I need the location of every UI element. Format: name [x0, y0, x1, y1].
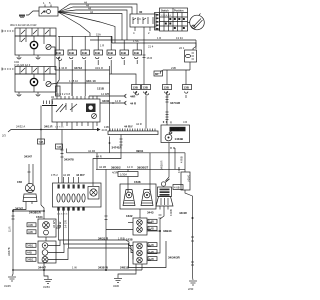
svg-text:14B: 14B	[149, 243, 154, 247]
ground G3 path	[118, 270, 136, 278]
harness wire with ticks to flasher	[166, 95, 169, 125]
ground G1	[8, 277, 16, 281]
side marker lamp 158	[17, 180, 37, 208]
flasher relay K2	[52, 96, 100, 126]
rear feed wire 1	[59, 211, 134, 246]
svg-text:4/3R: 4/3R	[112, 171, 118, 175]
svg-text:15A: 15A	[96, 32, 101, 36]
svg-text:4 6B: 4 6B	[174, 186, 180, 190]
svg-text:14 R: 14 R	[115, 99, 121, 103]
svg-text:39/31: 39/31	[136, 149, 144, 153]
hazard switch S2	[130, 10, 156, 27]
bus 39/30/27	[96, 165, 185, 174]
svg-text:R: R	[170, 121, 172, 125]
jog 74B drop into node	[41, 205, 44, 211]
svg-text:44R: 44R	[130, 95, 136, 99]
label box 1/30A	[118, 169, 138, 192]
ignition switch key symbol	[188, 14, 205, 30]
svg-text:131B: 131B	[97, 87, 104, 91]
comb drop from bus1	[109, 83, 111, 131]
wire 8P stub curl	[160, 70, 163, 74]
svg-text:24/38/1R: 24/38/1R	[29, 211, 42, 215]
svg-text:1 R: 1 R	[100, 44, 104, 48]
svg-text:34: 34	[51, 95, 54, 99]
svg-text:16 R: 16 R	[147, 56, 153, 60]
svg-text:4.6: 4.6	[137, 17, 141, 21]
left lamp unit A bottom pins	[17, 55, 40, 59]
drop to bracket B3	[166, 70, 168, 85]
svg-text:11B: 11B	[95, 51, 100, 55]
svg-text:175 2: 175 2	[51, 173, 58, 177]
bottom ground bus	[12, 266, 142, 272]
svg-text:1/30A: 1/30A	[120, 173, 127, 177]
svg-text:Switch: Switch	[161, 10, 169, 13]
flasher unit 34730	[161, 120, 190, 152]
svg-text:44 2B: 44 2B	[63, 173, 70, 177]
svg-text:4 RB: 4 RB	[177, 167, 181, 173]
stub between 1534 boxes	[45, 237, 47, 241]
svg-text:34/34: 34/34	[187, 175, 191, 182]
horn unit box 1538	[120, 180, 156, 209]
svg-text:13B: 13B	[184, 86, 189, 90]
svg-text:34713: 34713	[74, 66, 82, 70]
horn H2 feed	[149, 169, 151, 192]
svg-text:13B: 13B	[104, 125, 109, 129]
right vertical tag wire	[180, 153, 193, 196]
svg-text:34B2: 34B2	[27, 258, 34, 262]
svg-text:11 R: 11 R	[8, 226, 12, 232]
wire fan line 5	[58, 12, 115, 43]
wire into 1534	[43, 211, 45, 219]
svg-text:1534: 1534	[36, 215, 43, 219]
bracket B4	[183, 85, 192, 99]
connector arcs row 1	[57, 57, 138, 60]
continuation dashes B	[2, 68, 15, 71]
svg-text:1434B: 1434B	[175, 137, 184, 141]
comb wire to C5 lamp	[93, 135, 123, 187]
svg-text:44: 44	[88, 7, 91, 11]
svg-text:24B1B: 24B1B	[120, 266, 129, 270]
svg-text:34730: 34730	[171, 128, 180, 132]
svg-text:39/30/27: 39/30/27	[137, 165, 149, 169]
left lamp unit A terminal row	[15, 28, 56, 36]
left lamp unit B body	[15, 74, 56, 92]
svg-text:44B: 44B	[27, 251, 32, 255]
feed bus line A	[58, 35, 112, 37]
svg-text:14B: 14B	[149, 220, 154, 224]
front lamp unit 1534	[27, 215, 61, 237]
wire to bracket B1	[110, 74, 137, 85]
wires 1638 to ground bus	[136, 264, 142, 270]
feed bus line A2	[90, 39, 196, 41]
svg-text:34741R: 34741R	[170, 101, 181, 105]
svg-text:34/30: 34/30	[102, 99, 110, 103]
wire hazard drop 16R	[143, 27, 145, 85]
svg-text:4 R: 4 R	[183, 120, 187, 124]
svg-text:31/53: 31/53	[43, 285, 50, 289]
relay bottom pin drops	[57, 126, 93, 130]
connector block C5	[51, 173, 101, 207]
svg-text:44 R: 44 R	[130, 102, 137, 106]
svg-text:44/4R: 44/4R	[179, 211, 188, 215]
svg-text:158: 158	[17, 180, 22, 184]
ground G3	[114, 279, 122, 283]
svg-text:1 78 10: 1 78 10	[69, 79, 78, 83]
ground G4	[189, 281, 197, 285]
svg-text:34B43: 34B43	[163, 229, 172, 233]
svg-text:44 2B: 44 2B	[99, 165, 106, 169]
svg-text:11B: 11B	[69, 51, 74, 55]
svg-text:21B: 21B	[171, 66, 176, 70]
rear feed wire 2	[64, 211, 134, 253]
ground G2	[44, 280, 52, 284]
svg-text:2/3: 2/3	[2, 134, 6, 138]
svg-text:2/30: 2/30	[188, 287, 194, 291]
bus link drop	[149, 153, 151, 170]
svg-text:13B: 13B	[143, 86, 148, 90]
svg-text:34B: 34B	[28, 223, 33, 227]
drop wire 74B	[24, 106, 45, 206]
relay drops from bus2	[57, 83, 72, 96]
svg-text:34/47B: 34/47B	[7, 247, 11, 256]
left lamp unit A body	[15, 36, 56, 55]
left lamp unit B terminal row	[15, 67, 56, 75]
wire fan line 6	[58, 12, 90, 36]
wire node 24/38/1R	[12, 207, 44, 215]
svg-text:30: 30	[139, 10, 143, 14]
svg-text:31/45: 31/45	[4, 284, 11, 288]
svg-text:8P: 8P	[155, 72, 159, 76]
svg-text:30A 3 4A GR 4A 3 GR: 30A 3 4A GR 4A 3 GR	[10, 23, 37, 27]
svg-text:44: 44	[90, 10, 93, 14]
svg-text:13 34: 13 34	[176, 36, 183, 40]
hazard switch pin stubs	[135, 27, 150, 31]
turn signal stalk switch	[156, 179, 183, 210]
feed bus line B	[112, 43, 196, 49]
wire flasher pin2 to bus	[174, 148, 176, 169]
svg-text:13B: 13B	[133, 86, 138, 90]
ignition switch position table	[160, 8, 188, 31]
svg-text:14 GR: 14 GR	[64, 220, 68, 228]
svg-text:22 1: 22 1	[179, 46, 185, 50]
wire flasher to stalk switch	[166, 152, 170, 181]
wire fan line 4	[58, 12, 122, 40]
bus 34/110	[52, 66, 110, 84]
svg-text:34447: 34447	[38, 266, 46, 270]
rear lamp unit 1638	[126, 238, 166, 268]
svg-text:34/1 R: 34/1 R	[44, 125, 53, 129]
horn H1	[123, 190, 135, 206]
wire feed to lamp 158	[28, 164, 30, 184]
front lamp unit 1534B	[26, 241, 56, 263]
wire fan line 2	[58, 7, 132, 14]
rear lamp unit 1632	[106, 209, 157, 235]
bracket B3	[163, 85, 172, 95]
junction box comb strip	[104, 125, 158, 135]
bus link	[111, 36, 113, 43]
svg-text:3443: 3443	[147, 211, 154, 215]
wire 8P jog from fuse	[163, 69, 190, 71]
svg-text:14 R/B: 14 R/B	[101, 92, 109, 96]
svg-text:14B: 14B	[149, 250, 154, 254]
svg-text:44 R: 44 R	[136, 122, 142, 126]
node R dots	[163, 121, 164, 122]
svg-text:11B: 11B	[121, 51, 126, 55]
svg-text:44B: 44B	[28, 230, 33, 234]
bus 34713	[52, 47, 110, 70]
svg-text:1632: 1632	[126, 214, 133, 218]
svg-text:1638: 1638	[126, 238, 133, 242]
pin blobs below C5	[57, 207, 85, 216]
svg-text:11B: 11B	[108, 51, 113, 55]
continuation dashes A	[2, 30, 15, 33]
relay output wire 44R lower	[100, 99, 137, 106]
connector row 1 top drops	[59, 36, 137, 50]
svg-text:13B: 13B	[164, 86, 169, 90]
svg-text:14 O: 14 O	[127, 165, 133, 169]
svg-text:3430: 3430	[113, 284, 119, 288]
svg-text:1 34 R: 1 34 R	[59, 66, 67, 70]
left lamp unit B bottom pins	[17, 92, 40, 96]
svg-text:11B: 11B	[134, 51, 139, 55]
svg-text:74B: 74B	[39, 140, 44, 144]
svg-text:44 4R: 44 4R	[88, 149, 95, 153]
svg-text:11B: 11B	[82, 51, 87, 55]
relay output wire 44R upper	[89, 92, 136, 99]
svg-text:44 R/Y: 44 R/Y	[76, 173, 85, 177]
svg-text:44 R/Y: 44 R/Y	[124, 125, 133, 129]
svg-text:34347: 34347	[24, 155, 32, 159]
wire fan line 1	[58, 4, 137, 14]
svg-text:21 4: 21 4	[148, 45, 154, 49]
svg-text:4 R/B: 4 R/B	[180, 156, 184, 163]
wire switch to rear lamps	[147, 210, 164, 254]
fuse F1	[179, 43, 197, 70]
svg-text:24/32 A: 24/32 A	[16, 125, 25, 129]
mid vertical to ground bus	[105, 169, 107, 270]
svg-text:14 W: 14 W	[58, 221, 62, 228]
bracket B1	[132, 85, 141, 95]
right ground trunk wire	[192, 196, 195, 280]
wire fan line 3	[58, 10, 127, 40]
ignition connector strip C1	[155, 13, 160, 31]
svg-text:39/30/2: 39/30/2	[111, 165, 121, 169]
svg-text:1538: 1538	[134, 180, 141, 184]
svg-text:1 W: 1 W	[72, 266, 77, 270]
svg-text:14B: 14B	[149, 257, 154, 261]
vertical tag above relay	[56, 86, 61, 96]
ground G2 path	[44, 270, 48, 279]
left ground trunk	[12, 208, 27, 277]
svg-text:34/31 R: 34/31 R	[98, 237, 109, 241]
svg-text:34 R/Y: 34 R/Y	[52, 220, 56, 228]
wire 24/32 bus	[2, 125, 107, 138]
svg-text:11B: 11B	[56, 51, 61, 55]
wire 1534B to ground bus	[43, 263, 45, 270]
bus 39/31	[67, 149, 186, 153]
svg-text:3438 W: 3438 W	[98, 266, 108, 270]
connector row 1 bottom stubs	[57, 60, 137, 96]
svg-text:34747: 34747	[15, 207, 23, 211]
svg-text:34/1 10: 34/1 10	[86, 79, 96, 83]
svg-text:73B: 73B	[57, 145, 62, 149]
svg-text:4 R/B: 4 R/B	[169, 209, 173, 216]
drop wire 73B	[56, 130, 75, 184]
svg-text:1 5A: 1 5A	[133, 39, 139, 43]
svg-text:34/30 R: 34/30 R	[160, 161, 164, 170]
horn H2	[141, 190, 153, 206]
stubs from 1534B up to feeds	[48, 240, 68, 260]
drop to bracket B4	[185, 70, 187, 85]
stub wires into C5 top	[59, 177, 79, 183]
svg-text:34B1: 34B1	[27, 244, 34, 248]
svg-text:14B: 14B	[149, 227, 154, 231]
inline connector row 1	[55, 50, 142, 55]
rear feed wire 3	[69, 211, 134, 260]
svg-text:1 R: 1 R	[157, 36, 161, 40]
svg-text:1 2 3 4 5 6: 1 2 3 4 5 6	[161, 15, 172, 17]
relay left pin bar	[42, 101, 57, 106]
svg-text:Position: Position	[174, 10, 184, 13]
svg-text:34741R: 34741R	[112, 146, 123, 150]
wire K1 to GR node	[26, 11, 39, 15]
svg-text:1 2 7 3 5: 1 2 7 3 5	[55, 127, 64, 129]
link bus1 to bus2	[96, 153, 98, 170]
svg-text:343478: 343478	[64, 158, 74, 162]
bracket B2	[136, 85, 151, 129]
relay K1 (top-left control unit)	[39, 1, 58, 16]
svg-text:1 R/B: 1 R/B	[118, 237, 125, 241]
svg-text:34/1 R: 34/1 R	[95, 66, 103, 70]
svg-text:34/34/3R: 34/34/3R	[168, 256, 181, 260]
